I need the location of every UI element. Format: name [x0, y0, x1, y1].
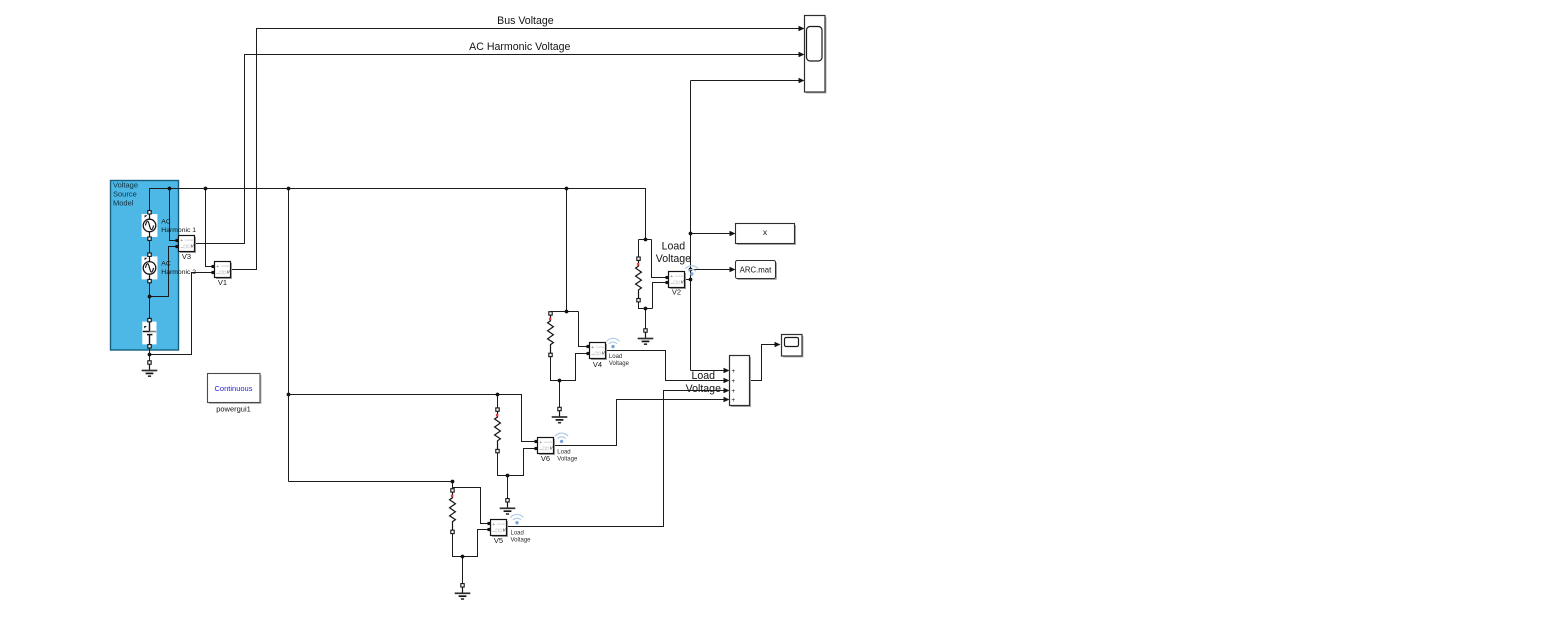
arrowhead into Scope input 1: [799, 26, 805, 31]
wire: AC Harmonic 2 bottom to DC source top: [149, 283, 151, 319]
wire: V6 feeder horizontal to V6 plus input: [289, 395, 536, 442]
ground below V4 resistor: [552, 407, 568, 422]
svg-text:x: x: [763, 227, 768, 237]
svg-text:Model: Model: [113, 199, 134, 208]
node: junction above V2 resistor: [644, 238, 648, 242]
svg-text:V6: V6: [541, 454, 550, 463]
wire: V6 resistor bottom to V6 minus input: [498, 449, 536, 476]
node: junction above V4 resistor: [565, 310, 569, 314]
svg-text:+: +: [731, 388, 735, 395]
wire: junction down to V5 ground: [462, 557, 464, 584]
wire: junction down to V4 ground: [559, 381, 561, 408]
wire: to V2 plus input: [652, 240, 666, 278]
ground below V6 resistor: [500, 499, 516, 514]
sum block (4 inputs): [730, 356, 752, 408]
resistor (V2 load): [636, 257, 642, 302]
wire: bus tap to V3 plus input: [170, 189, 176, 241]
wire: to To File block ARC.mat: [691, 269, 730, 271]
svg-text:Bus Voltage: Bus Voltage: [497, 15, 554, 27]
voltage measurement V4: [587, 343, 608, 369]
node: junction to ARC.mat: [689, 268, 693, 272]
to-file block ARC.mat: [736, 261, 778, 281]
svg-text:Continuous: Continuous: [215, 384, 253, 393]
node: bus junction x=566: [565, 187, 569, 191]
wire: V3 output up to AC Harmonic Voltage line into Scope input 2: [195, 55, 799, 244]
wire: to To Workspace block x: [691, 233, 731, 235]
svg-text:AC: AC: [161, 261, 171, 268]
svg-text:Voltage: Voltage: [113, 181, 138, 190]
node: junction to x block: [689, 232, 693, 236]
wire: V5 resistor bottom to V5 minus input: [453, 530, 489, 557]
svg-text:Voltage: Voltage: [511, 538, 532, 544]
wire: junction down to V6 resistor top: [497, 395, 499, 409]
wire: sum output to Scope1: [750, 345, 775, 381]
powergui block: [208, 374, 262, 414]
svg-text:ARC.mat: ARC.mat: [740, 265, 772, 274]
voltage measurement V3: [176, 236, 197, 261]
wire: vertical distribution net from scope run down to sum input 1: [690, 81, 692, 371]
wire: to V4 plus input: [579, 312, 587, 347]
wire: V4 output to sum input 2: [606, 351, 724, 381]
wire: V2 output to distribution node: [685, 279, 691, 281]
svg-text:Voltage: Voltage: [686, 383, 721, 395]
wire: V2 branch top horizontal: [639, 239, 652, 241]
svg-text:Load: Load: [511, 531, 524, 537]
svg-text:Load: Load: [692, 370, 716, 382]
wire: V4 branch top horizontal: [551, 311, 579, 313]
AC voltage source AC Harmonic 1: [142, 211, 197, 241]
wireless logging badge on V2: [685, 266, 698, 276]
svg-text:Source: Source: [113, 190, 137, 199]
ground below V5 resistor: [455, 584, 471, 599]
node: junction at V2 output: [689, 278, 693, 282]
wire: V5 output to sum input 3: [507, 391, 724, 527]
node: bus junction x=205: [204, 187, 208, 191]
node: junction below source chain: [148, 353, 152, 357]
svg-text:Load: Load: [557, 449, 570, 455]
svg-text:+: +: [731, 368, 735, 375]
svg-text:Harmonic 2: Harmonic 2: [161, 269, 196, 276]
wire: V4 resistor bottom to V4 minus input: [551, 354, 587, 381]
wireless logging badge on V4: [607, 338, 620, 348]
scope Scope (3 inputs, top right): [805, 16, 827, 94]
svg-text:AC: AC: [161, 219, 171, 226]
resistor (V5 load): [450, 489, 456, 534]
svg-text:Voltage: Voltage: [656, 253, 691, 265]
svg-text:+: +: [731, 378, 735, 385]
node: junction below V4 resistor: [558, 379, 562, 383]
voltage measurement V6: [535, 438, 556, 464]
resistor (V4 load): [548, 312, 554, 357]
arrowhead into Scope1: [775, 342, 781, 347]
arrowhead into Scope input 2: [799, 52, 805, 57]
wire: branch to V5 plus input: [453, 488, 489, 524]
wire: DC source bottom to ground junction: [149, 349, 151, 361]
node: junction between AC Harmonic 2 and DC source: [148, 295, 152, 299]
svg-text:Load: Load: [609, 354, 622, 360]
voltage measurement V2: [666, 272, 687, 297]
svg-text:Voltage: Voltage: [609, 361, 630, 367]
svg-text:powergui1: powergui1: [216, 405, 251, 414]
wire: bottom run to sum input 1: [691, 370, 724, 372]
arrowhead into sum input 1: [724, 368, 730, 373]
arrowhead into ARC.mat block: [730, 267, 736, 272]
svg-text:Voltage: Voltage: [557, 456, 578, 462]
wire: V6 output to sum input 4: [554, 400, 724, 446]
node: junction below V6 resistor: [506, 474, 510, 478]
subsystem area: Voltage Source Model (blue region): [111, 181, 179, 351]
svg-text:V2: V2: [672, 288, 681, 297]
wire: to V2 minus input: [653, 283, 666, 309]
wire: bus tap to V1 plus input: [206, 189, 212, 267]
wire: junction down to V5 resistor top: [452, 482, 454, 490]
wire: V1 output up to Bus Voltage line into Scope input 1: [231, 29, 799, 270]
wire: source mid tap to V3 minus input: [150, 247, 176, 297]
wire: V5 feeder horizontal: [289, 481, 453, 483]
wire: source bottom to V1 minus input: [150, 273, 212, 355]
svg-text:V5: V5: [494, 536, 503, 545]
svg-text:Harmonic 1: Harmonic 1: [161, 227, 196, 234]
voltage measurement V5: [488, 520, 509, 546]
wire: main bus from AC Harmonic 1 top across to V2 branch: [150, 189, 646, 240]
resistor (V6 load): [495, 408, 501, 453]
arrowhead into sum input 2: [724, 378, 730, 383]
wireless logging badge on V5: [511, 514, 524, 524]
node: junction below V2 resistor: [644, 307, 648, 311]
wire: top run to Scope input 3: [691, 80, 799, 82]
wire: V2 resistor bottom horizontal: [639, 302, 653, 309]
to-workspace block x: [736, 224, 797, 246]
voltage measurement V1: [212, 262, 233, 287]
node: junction above V6 resistor: [496, 393, 500, 397]
scope Scope1: [782, 335, 804, 358]
wire: bus drop at x=566 to V4 branch: [566, 189, 568, 312]
wireless logging badge on V6: [555, 433, 568, 443]
arrowhead into Scope input 3: [799, 78, 805, 83]
arrowhead into sum input 3: [724, 388, 730, 393]
ground below voltage source model: [142, 361, 158, 376]
DC voltage source (battery): [142, 318, 156, 348]
svg-text:Load: Load: [662, 240, 686, 252]
arrowhead into x block: [730, 231, 736, 236]
wire: AC Harmonic 1 bottom to AC Harmonic 2 top: [149, 241, 151, 254]
node: junction above V5 resistor: [451, 480, 455, 484]
ground below V2 resistor: [638, 329, 654, 344]
node: junction below V5 resistor: [461, 555, 465, 559]
svg-text:V3: V3: [182, 252, 191, 261]
node: bus junction x=169: [168, 187, 172, 191]
node: junction at V6 feeder: [287, 393, 291, 397]
wire: junction down to V6 ground: [507, 476, 509, 499]
wire: down to V2 resistor top: [638, 240, 640, 258]
svg-text:V1: V1: [218, 278, 227, 287]
wire: bus drop at x=288 down to lower feeders: [288, 189, 290, 482]
arrowhead into sum input 4: [724, 397, 730, 402]
AC voltage source AC Harmonic 2: [142, 253, 197, 283]
svg-text:AC Harmonic Voltage: AC Harmonic Voltage: [469, 41, 570, 53]
svg-text:V4: V4: [593, 360, 602, 369]
wire: junction down to V2 ground: [645, 309, 647, 329]
svg-text:+: +: [731, 397, 735, 404]
node: bus junction x=288: [287, 187, 291, 191]
